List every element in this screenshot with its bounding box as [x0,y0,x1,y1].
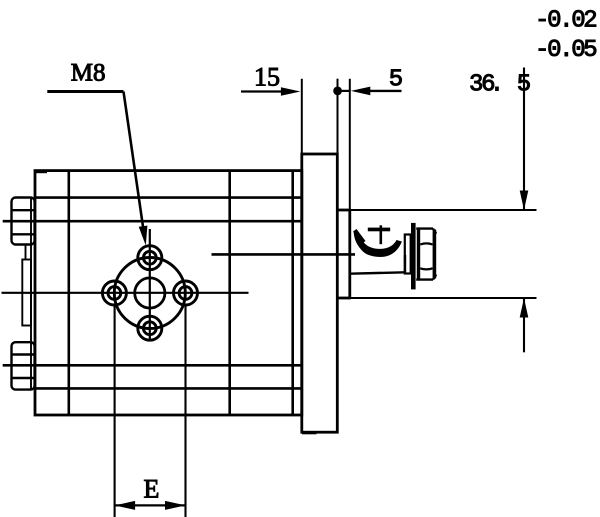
bolt axis line y=221.2 [3,220,302,223]
washer bar [411,223,416,290]
shaft end small rect [405,235,411,274]
pilot boss bottom line [337,297,351,300]
body horizontal line y=197.6 [35,196,302,199]
bolt hole right [174,281,198,305]
leader M8 arrowhead [139,226,148,246]
shaft tang bowl thick rim crescent [355,234,402,257]
leader M8 diagonal [124,92,145,238]
seal strip rectangle [22,260,31,326]
leader M8 horizontal [47,90,123,93]
pilot boss top line [337,209,351,212]
side cover plate edge line x=31 [30,198,32,390]
hex bolt top [12,198,35,245]
flange centerline y=292.8 [2,292,249,294]
shaft tang left wedge [355,230,364,242]
pilot boss right face [348,210,351,298]
bolt hole vertical centerline x=149.8 [149,229,151,341]
bolt hole left [102,281,126,305]
shaft tang bowl outer arc left [355,231,368,252]
dimension 36.5 down arrowhead [520,191,529,211]
shaft tang key line [379,225,382,244]
svg-text:-0.05: -0.05 [535,37,596,64]
body horizontal line y=388.4 [35,387,302,390]
dimension 5 left arrowhead and tail [351,87,371,96]
extension line x=337.3 above flange [337,79,339,154]
dimension 36.5 upper line [523,68,525,211]
body section line x=229.7 [228,171,231,415]
mounting flange plate [302,154,338,432]
bolt axis line y=365.3 [3,364,302,367]
extension line x=114.6 below left hole [114,306,116,517]
dimension 36.5 up arrowhead [520,298,529,318]
svg-text:5: 5 [389,67,402,94]
svg-text:E: E [144,474,160,503]
port center circle [135,278,165,308]
svg-text:.: . [490,72,502,99]
port flange bolt circle [114,258,185,329]
shaft collar bottom line [350,272,405,273]
body section line x=292.7 [291,171,294,415]
dimension 15 line with right arrowhead [241,90,282,92]
dimension E left arrowhead [115,501,136,510]
dimension E line [115,504,186,506]
dimension E right arrowhead [165,501,186,510]
flange bottom step [302,432,317,434]
bolt washer stub [25,245,27,260]
dimension 36.5 lower line [523,298,525,352]
extension line x=185.5 below right hole [184,306,186,517]
bolt hole top [138,246,162,270]
hex nut right [416,228,436,281]
shaft collar right edge [404,255,406,273]
pump body outline [35,171,302,415]
bolt hole bottom [138,316,162,340]
dimension 5 line segment between [338,90,350,92]
svg-text:15: 15 [254,63,280,92]
svg-text:M8: M8 [71,60,106,87]
hex bolt bottom [12,342,35,389]
extension line x=301.8 above body [301,79,303,171]
body section line x=68.8 [68,171,71,415]
dimension dot terminator [333,87,342,96]
shaft centerline y=254.4 [212,253,356,256]
front cover top step [35,171,47,173]
svg-text:5: 5 [517,72,530,99]
svg-text:-0.02: -0.02 [535,8,596,35]
shaft tang top bar [368,228,390,232]
extension line x=349.8 above pilot [349,79,351,210]
